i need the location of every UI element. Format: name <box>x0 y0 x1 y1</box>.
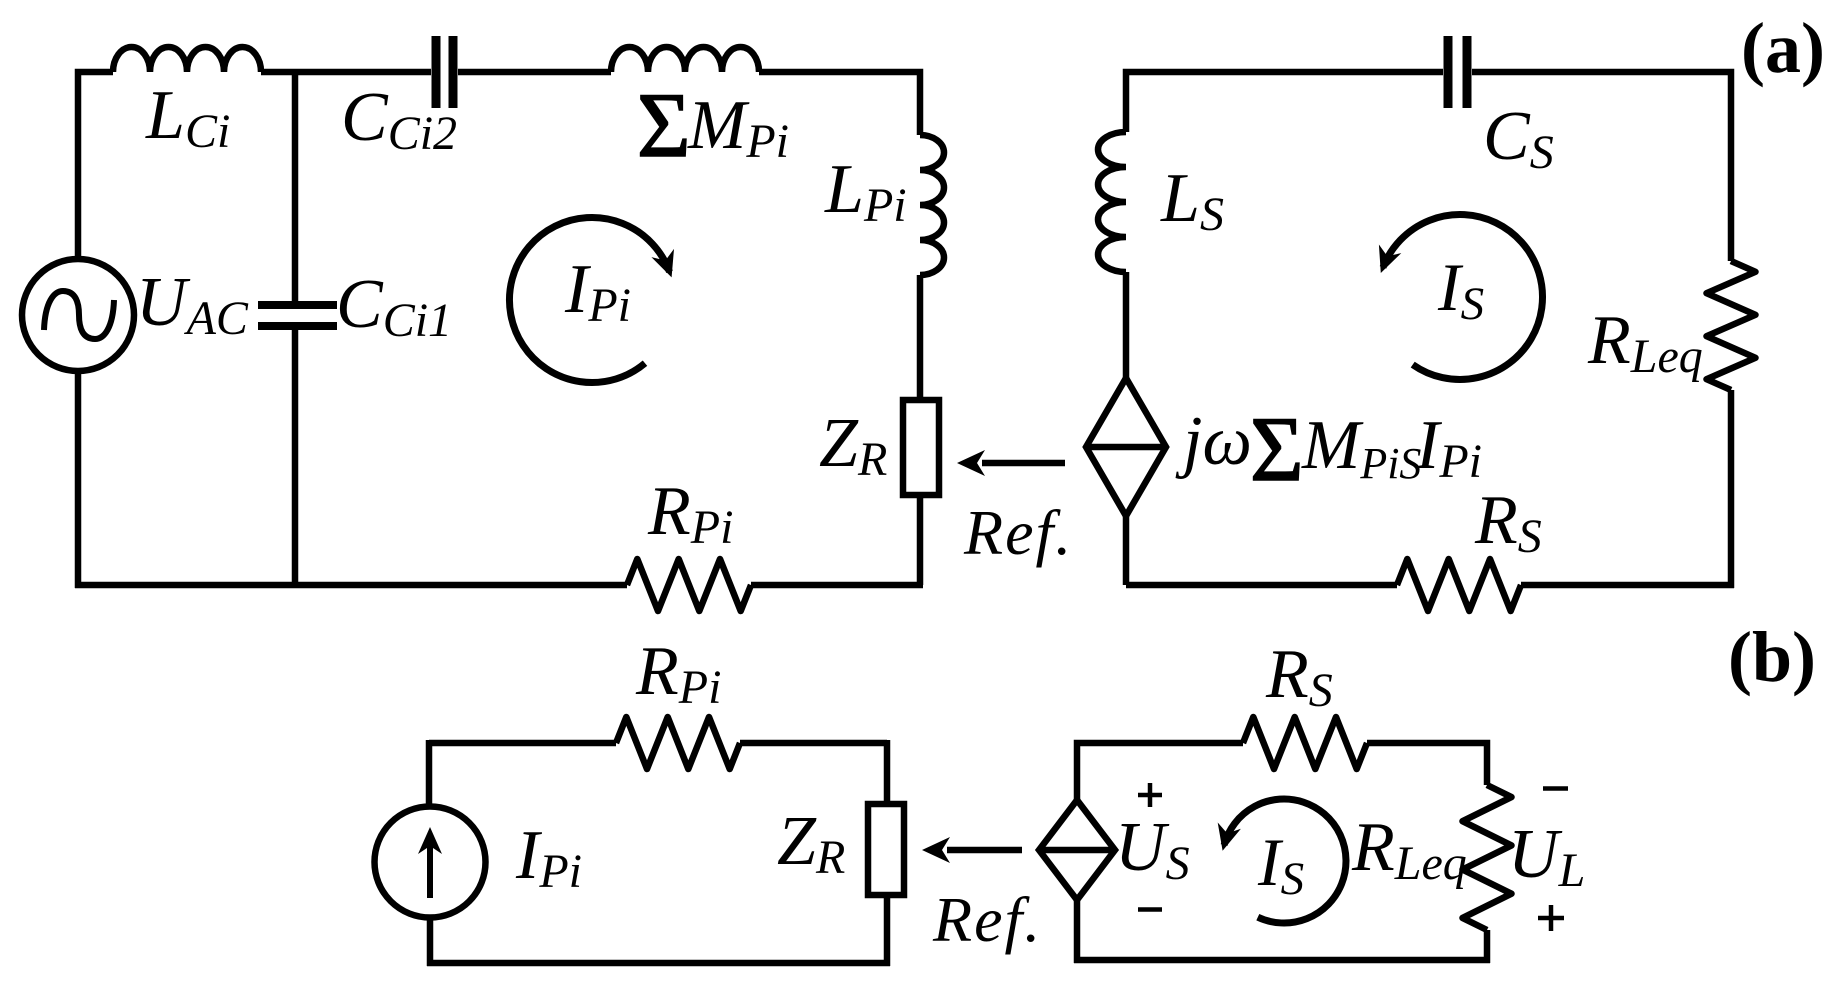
inductor sum M_Pi <box>611 47 759 72</box>
wire middle vertical below C_Ci1 <box>292 330 299 585</box>
label plus below U_L <box>1538 916 1564 921</box>
inductor L_Pi <box>920 135 944 275</box>
wire top-left corner of secondary loop (a) <box>1126 72 1443 132</box>
label plus above U_S <box>1138 793 1162 798</box>
wire left-top corner of primary loop (a) <box>78 72 113 258</box>
wire left side below source (a) <box>75 372 82 588</box>
node middle vertical wire upper (C_Ci1 branch) <box>292 72 299 301</box>
reference arrow (b) <box>947 847 1022 854</box>
wire top-left of output loop (b) <box>1077 743 1243 800</box>
wire top between C_S and right corner (a) <box>1472 72 1731 261</box>
impedance Z_R (b) <box>868 804 904 895</box>
resistor R_S (b) <box>1243 717 1367 769</box>
dependent source U_S diamond <box>1039 800 1115 900</box>
resistor R_S (a) <box>1397 559 1521 611</box>
wire below dependent source (a) <box>1123 516 1130 585</box>
svg-text:(a): (a) <box>1741 8 1825 88</box>
svg-text:Ref.: Ref. <box>932 884 1042 955</box>
resistor R_Pi (a) <box>627 559 751 611</box>
resistor R_Pi (b) <box>616 717 740 769</box>
resistor R_Leq (a) <box>1707 261 1756 390</box>
capacitor C_Ci1 <box>258 301 337 309</box>
wire top-right of output loop (b) <box>1367 743 1487 785</box>
wire from Z_R to bottom wire (a) <box>917 495 924 585</box>
wire left side below source (b) <box>427 920 434 966</box>
current source I_Pi circle <box>375 807 486 918</box>
capacitor C_Ci2 <box>432 36 441 108</box>
wire top-right of current-source loop (b) <box>740 740 887 747</box>
capacitor C_S <box>1444 36 1453 108</box>
inductor L_Ci <box>113 47 261 72</box>
wire bottom-left of primary loop (a) <box>75 582 627 589</box>
inductor L_S <box>1098 132 1126 272</box>
wire right side below Z_R (b) <box>884 895 891 966</box>
wire below U_S source (b) <box>1074 900 1081 963</box>
svg-text:Σ: Σ <box>637 74 691 176</box>
wire top-right corner down to L_Pi <box>759 72 920 135</box>
wire top between L_Ci and C_Ci2 <box>261 69 431 76</box>
wire bottom between R_Pi and right corner (a) <box>751 582 923 589</box>
impedance Z_R (a) <box>903 400 939 495</box>
wire top between C_Ci2 and sum-M_Pi inductor <box>458 69 611 76</box>
label minus below U_S <box>1138 907 1162 912</box>
wire left side above source (b) <box>426 740 433 805</box>
wire right side below R_Leq (b) <box>1484 930 1491 963</box>
svg-text:Σ: Σ <box>1250 398 1304 500</box>
wire from L_Pi down to Z_R <box>917 275 924 400</box>
wire bottom between dependent source and R_S (a) <box>1126 582 1397 589</box>
voltage source U_AC <box>22 259 134 371</box>
loop current arrow I_S (b) <box>1224 799 1346 923</box>
svg-text:jω: jω <box>1175 403 1252 480</box>
svg-text:Ref.: Ref. <box>963 497 1073 568</box>
svg-text:(b): (b) <box>1728 617 1816 697</box>
resistor R_Leq (b) <box>1463 785 1512 930</box>
dependent source jw sum M_PiS I_Pi diamond <box>1086 378 1166 516</box>
wire bottom of output loop (b) <box>1074 957 1490 964</box>
wire bottom of current-source loop (b) <box>427 960 890 967</box>
wire right side below R_Leq (a) <box>1728 390 1735 588</box>
loop current arrow I_S (a) <box>1383 215 1543 380</box>
wire top-left of current-source loop (b) <box>429 740 616 747</box>
wire right side above Z_R (b) <box>884 740 891 804</box>
wire bottom-right of secondary loop (a) <box>1521 582 1734 589</box>
reference arrow (a) <box>982 460 1065 467</box>
loop current arrow I_Pi (a) <box>509 218 669 383</box>
label minus above U_L <box>1543 786 1568 791</box>
wire from L_S down to dependent source (a) <box>1123 272 1130 378</box>
